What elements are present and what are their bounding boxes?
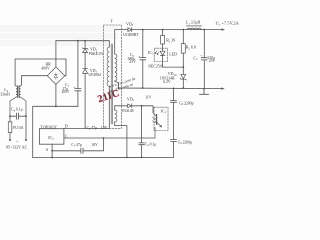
wire AC lower rail to bridge left vertex — [22, 76, 48, 85]
optocoupler IC1 phototransistor dashed box — [154, 107, 168, 130]
svg-text:10V: 10V — [101, 126, 108, 130]
wire C1 branch upper — [77, 41, 79, 89]
wire zener to ground rail — [182, 79, 184, 88]
svg-text:1N4148: 1N4148 — [121, 109, 133, 113]
wire R2 top lead — [182, 30, 184, 44]
svg-text:VD3: VD3 — [126, 21, 134, 27]
svg-text:P6KE151: P6KE151 — [89, 52, 104, 56]
diode VD3 UGB8BT — [128, 28, 132, 32]
wire right line to AC terminal — [25, 116, 27, 138]
svg-text:C6 2200p: C6 2200p — [179, 101, 193, 106]
svg-text:IC1: IC1 — [161, 108, 167, 114]
svg-text:C8 2200p: C8 2200p — [178, 140, 192, 145]
wire secondary top lead to VD3 — [115, 30, 128, 54]
watermark 21IC red — [95, 76, 140, 105]
wire left line to fuse — [9, 116, 11, 122]
svg-text:R2 6.8: R2 6.8 — [186, 45, 196, 51]
capacitor C8 2200p plates — [171, 140, 177, 142]
phototransistor light arrows — [152, 118, 155, 123]
svg-text:VD5: VD5 — [127, 96, 135, 102]
wire DC- rail to left down-leg — [33, 106, 78, 157]
wire clamp chain middle — [84, 53, 86, 69]
wire secondary bottom lead — [115, 81, 119, 88]
wire bridge DC+ riser — [55, 41, 57, 67]
wire secondary ground rail — [118, 87, 222, 90]
inductor L2 common-mode choke — [10, 85, 26, 116]
wire bias filter cap C branch — [141, 106, 143, 158]
optocoupler IC1 LED emission arrows — [155, 51, 159, 55]
svg-text:T: T — [110, 18, 113, 23]
svg-text:UF4004: UF4004 — [88, 73, 101, 77]
bridge rectifier inner diode glyph — [54, 73, 57, 79]
svg-text:C4 0.1μ: C4 0.1μ — [11, 107, 23, 113]
wire C7 branch — [203, 30, 205, 89]
svg-text:400V: 400V — [41, 66, 50, 70]
svg-text:UGB8BT: UGB8BT — [123, 32, 139, 37]
svg-text:10V: 10V — [91, 143, 98, 147]
svg-text:L1 3.3μH: L1 3.3μH — [186, 20, 201, 26]
wire C3 control cap branch — [52, 138, 103, 151]
wire VD5 to 11V node and opto collector — [132, 106, 153, 113]
optocoupler IC1 LED diode — [160, 51, 165, 55]
svg-text:C2 47μ: C2 47μ — [87, 126, 98, 131]
wire primary DC+ rail — [56, 41, 109, 47]
diode VD2 P6KE151 TVS — [82, 48, 88, 53]
inductor L1 core bar — [186, 25, 201, 27]
zener diode VD10 1N5234B — [180, 74, 186, 80]
faint scan noise band — [0, 25, 118, 46]
svg-text:C7: C7 — [193, 55, 198, 61]
wire bias top lead to VD5 — [115, 106, 128, 110]
IC2 TOP101Y box — [39, 129, 64, 145]
svg-text:85~132V AC: 85~132V AC — [6, 144, 28, 149]
transformer core lines — [111, 44, 113, 124]
svg-text:+: + — [73, 85, 75, 89]
svg-text:+: + — [138, 55, 140, 59]
transformer bias winding — [115, 110, 117, 122]
wire LED cathode to zener node — [163, 56, 184, 68]
transformer secondary winding — [115, 54, 117, 81]
svg-text:33mH: 33mH — [0, 93, 10, 97]
wire Y-cap lower to primary ground rail — [173, 142, 175, 158]
wire source S pin — [51, 144, 53, 157]
wire primary bottom lead — [108, 86, 110, 128]
wire control C pin to opto emitter — [64, 137, 155, 139]
svg-text:25V: 25V — [209, 59, 216, 63]
svg-text:6.2V: 6.2V — [163, 80, 171, 84]
svg-text:FU/3A: FU/3A — [13, 126, 24, 130]
svg-text:C2 0.1μ: C2 0.1μ — [145, 143, 157, 148]
diode VD1 UF4004 — [83, 69, 88, 74]
wire bridge DC- riser — [55, 84, 57, 106]
transformer primary winding — [107, 47, 109, 86]
svg-text:200V: 200V — [62, 90, 70, 94]
svg-text:≈: ≈ — [16, 139, 18, 143]
inductor L1 winding — [187, 28, 201, 30]
wire Y-cap branch upper — [173, 88, 175, 139]
wire clamp chain upper — [84, 41, 86, 48]
wire drain D pin — [64, 127, 109, 129]
capacitor C2 680u plates electrolytic — [140, 58, 146, 60]
svg-text:25V: 25V — [129, 60, 136, 64]
optocoupler IC1 LED dashed box — [154, 48, 167, 61]
wire bias bottom lead — [115, 122, 127, 157]
wire R2 to zener node — [182, 53, 184, 74]
capacitor C2 0.1u plates bias — [139, 143, 144, 145]
svg-text:R1 39: R1 39 — [166, 38, 175, 44]
svg-text:NEC2501: NEC2501 — [148, 64, 163, 68]
wire fuse to AC terminal — [9, 133, 11, 139]
capacitor C7 120u plates electrolytic — [201, 58, 207, 60]
wire secondary output rail — [132, 29, 223, 31]
capacitor C3 47u plates — [81, 148, 83, 153]
ground rail end arrowhead — [222, 88, 225, 90]
resistor R1 39 — [161, 35, 165, 44]
wire AC top loop to bridge right vertex — [15, 59, 66, 85]
capacitor C4 plates — [16, 113, 18, 119]
capacitor C6 2200p plates — [171, 101, 177, 103]
capacitor C1 plates electrolytic — [75, 89, 81, 91]
AC terminal left — [9, 139, 11, 141]
wire R1 top lead — [162, 30, 164, 36]
svg-text:D: D — [65, 124, 68, 129]
output arrowhead +7.5V — [222, 29, 225, 31]
wire R1 to opto LED — [162, 44, 164, 51]
svg-text:Uo +7.5V,2A: Uo +7.5V,2A — [216, 21, 240, 27]
svg-text:IC2: IC2 — [48, 135, 54, 141]
resistor R2 6.8 — [181, 44, 185, 53]
svg-text:TOP101Y: TOP101Y — [41, 124, 57, 129]
wire primary ground rail — [33, 156, 174, 158]
svg-text:S: S — [46, 147, 48, 152]
phototransistor emitter arrowhead — [160, 125, 162, 127]
svg-text:IC1: IC1 — [148, 50, 154, 56]
wire C2 680u branch — [142, 30, 144, 88]
svg-text:C3 47μ: C3 47μ — [71, 143, 82, 148]
optocoupler IC1 phototransistor — [156, 115, 158, 125]
wire clamp chain lower to drain node — [84, 73, 86, 128]
svg-text:+: + — [200, 54, 202, 58]
diode VD5 1N4148 — [128, 104, 132, 108]
svg-text:LED: LED — [169, 51, 177, 56]
transformer T dashed box — [104, 25, 122, 128]
AC terminal right — [25, 139, 27, 141]
capacitor C4 X-cap wire — [10, 115, 26, 117]
ground symbol secondary — [200, 89, 209, 95]
bridge rectifier BR diamond — [47, 67, 65, 84]
fuse FU 3A — [8, 122, 12, 133]
svg-text:C: C — [65, 133, 68, 138]
wire C1 branch lower — [77, 91, 79, 106]
svg-text:11V: 11V — [145, 95, 152, 99]
